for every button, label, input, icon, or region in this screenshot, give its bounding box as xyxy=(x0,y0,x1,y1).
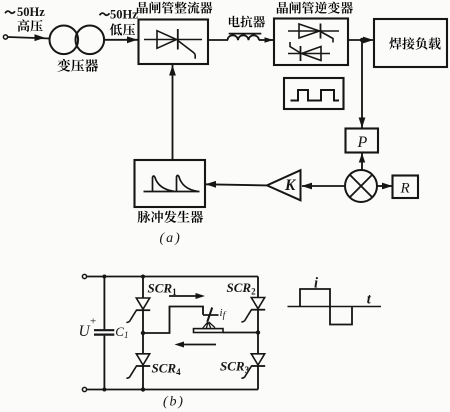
top rail xyxy=(87,276,258,278)
wire multiplier to R xyxy=(377,185,392,187)
K amplifier triangle xyxy=(267,170,301,200)
waveform current trace xyxy=(300,289,352,325)
workpiece plate xyxy=(194,329,224,333)
label 晶闸管整流器 (thyristor rectifier) xyxy=(137,2,212,14)
pulse spike 2 xyxy=(177,175,198,191)
arrow into welding load xyxy=(363,37,374,44)
inverter thyristor 1 triangle xyxy=(299,24,320,38)
junction capacitor bottom xyxy=(102,388,106,392)
pulse spike 1 xyxy=(153,176,175,192)
transformer T primary circle xyxy=(50,26,79,55)
svg-text:K: K xyxy=(284,177,297,194)
junction left top node xyxy=(141,275,145,279)
svg-text:(b): (b) xyxy=(163,395,185,410)
arrow into pulse generator xyxy=(206,181,217,188)
square-wave trace xyxy=(291,90,340,101)
wire workpiece to right node xyxy=(223,332,258,334)
arrow into R box xyxy=(382,183,393,190)
wire input to transformer xyxy=(8,37,50,39)
svg-text:50Hz: 50Hz xyxy=(17,5,45,19)
left branch wire middle xyxy=(142,310,144,353)
multiplier cross stroke 1 xyxy=(350,175,372,197)
wire reactor to inverter xyxy=(259,39,274,41)
arc sparks xyxy=(203,322,215,328)
wire inverter to welding load xyxy=(348,39,374,41)
label ~ AC tilde 2 xyxy=(100,13,110,15)
pulse generator box xyxy=(135,160,206,207)
arrow up into P xyxy=(359,153,365,163)
rectifier thyristor triangle xyxy=(157,31,177,49)
label 高压 (HV) xyxy=(18,20,43,32)
arrow into inverter xyxy=(265,37,274,42)
rectifier thyristor wire xyxy=(144,39,202,41)
inverter thyristor 1 wire xyxy=(288,30,339,32)
reactor core bar xyxy=(229,33,262,35)
capacitor branch upper wire xyxy=(103,277,105,330)
right branch wire middle xyxy=(257,310,259,354)
R box xyxy=(393,176,419,199)
svg-text:P: P xyxy=(357,134,368,151)
welding electrode xyxy=(207,308,212,322)
inverter thyristor 1 gate xyxy=(321,32,334,43)
multiplier circle xyxy=(345,170,377,202)
label 变压器 (transformer) xyxy=(57,59,98,72)
junction left bottom node xyxy=(141,387,145,391)
label 晶闸管逆变器 (thyristor inverter) xyxy=(277,2,353,14)
inverter box xyxy=(274,19,348,66)
arrow into K amplifier xyxy=(302,183,313,190)
wire transformer to rectifier xyxy=(104,39,138,41)
terminal top (b) xyxy=(82,274,86,278)
svg-text:50Hz: 50Hz xyxy=(110,8,138,22)
inverter thyristor 2 triangle xyxy=(302,47,322,61)
P box xyxy=(346,129,379,153)
svg-text:R: R xyxy=(400,180,410,196)
wire multiplier to P xyxy=(361,153,363,171)
inverter thyristor 2 cathode bar xyxy=(300,46,302,61)
thyristor SCR3 xyxy=(241,354,265,378)
current direction arrow left xyxy=(175,342,217,348)
junction right mid node xyxy=(256,330,260,334)
capacitor C1 plate bottom xyxy=(94,334,114,336)
svg-text:i: i xyxy=(314,276,318,292)
junction node feedback tap xyxy=(360,38,364,42)
svg-text:+: + xyxy=(90,316,96,328)
left branch wire top xyxy=(142,277,144,299)
right branch wire top xyxy=(257,277,259,299)
capacitor C1 plate top xyxy=(94,329,114,331)
bottom rail xyxy=(87,389,258,391)
wire left node to step xyxy=(143,307,203,334)
transformer T secondary circle xyxy=(76,26,105,55)
arrow into rectifier gate xyxy=(169,65,176,76)
thyristor SCR4 xyxy=(126,354,150,378)
svg-text:(a): (a) xyxy=(160,231,182,246)
wire multiplier to K xyxy=(302,185,345,187)
reactor L coil xyxy=(228,35,260,40)
electrode holder wire xyxy=(203,314,219,316)
label 低压 (LV) xyxy=(110,23,135,35)
left branch wire bottom xyxy=(142,366,144,389)
terminal bottom (b) xyxy=(82,387,86,391)
current direction arrow right xyxy=(169,293,205,299)
capacitor branch lower wire xyxy=(103,336,105,390)
arrow into rectifier xyxy=(127,36,138,43)
inverter thyristor 1 cathode bar xyxy=(320,24,322,39)
label 焊接负载 (welding load) xyxy=(389,37,440,49)
multiplier cross stroke 2 xyxy=(350,175,372,197)
wire rectifier to reactor xyxy=(208,39,228,41)
welding load box xyxy=(374,19,447,67)
thyristor SCR1 xyxy=(126,298,150,322)
wire K to pulse generator xyxy=(206,184,267,185)
feedback wire down to P xyxy=(361,40,363,128)
inverter thyristor 2 wire xyxy=(288,53,330,55)
square-wave monitor box xyxy=(284,78,344,109)
pulse trace baseline xyxy=(144,191,200,193)
arrow into P box xyxy=(359,118,366,129)
waveform time axis xyxy=(288,306,382,308)
rectifier thyristor gate xyxy=(178,41,195,59)
label ~ AC tilde 1 xyxy=(5,11,15,13)
arrow on input wire xyxy=(35,34,46,41)
inverter thyristor 2 gate xyxy=(290,42,301,53)
junction capacitor top xyxy=(102,275,106,279)
gate drive wire pulse-generator to rectifier xyxy=(172,65,174,160)
label 脉冲发生器 (pulse generator) xyxy=(138,211,203,223)
rectifier thyristor cathode bar xyxy=(177,29,179,50)
input terminal xyxy=(3,35,7,39)
junction left mid node xyxy=(141,331,145,335)
thyristor SCR2 xyxy=(241,298,265,322)
right branch wire bottom xyxy=(257,366,259,389)
rectifier box xyxy=(139,20,209,65)
label 电抗器 (reactor) xyxy=(229,16,265,28)
